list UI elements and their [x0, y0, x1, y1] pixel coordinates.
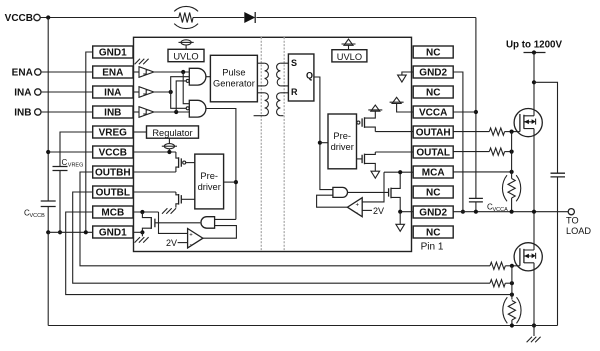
ground chassis B low FET — [162, 208, 176, 214]
svg-text:-: - — [356, 211, 358, 217]
wire INA to AND1 mid — [171, 77, 190, 92]
block Pre-driver B — [195, 154, 224, 209]
wire to pre-driver B — [224, 181, 236, 183]
junction INA branch — [169, 90, 173, 94]
junction GND1 bus / row — [84, 230, 88, 234]
wire 2V to comparator A — [362, 209, 372, 211]
gate AND2 interlock — [186, 100, 206, 117]
transformer T1 primary — [257, 63, 268, 86]
wire INB to AND1 bubble — [176, 81, 186, 112]
svg-text:TO: TO — [566, 216, 579, 226]
ground chassis ENA — [135, 59, 149, 65]
resistor bootstrap (surge) — [174, 6, 198, 28]
ground flag A FET source — [371, 171, 380, 178]
resistor RGL1 OUTAL gate — [453, 148, 511, 155]
pin ENA — [93, 66, 133, 79]
svg-text:GND2: GND2 — [419, 208, 447, 219]
isolation barrier left — [260, 37, 262, 251]
junction Q2 source / ground rail — [532, 323, 536, 327]
junction NTC2 / ground rail — [510, 323, 514, 327]
svg-text:INA: INA — [14, 87, 31, 98]
wire AND B bottom input from comparator — [203, 226, 237, 239]
pin OUTBL — [93, 186, 133, 199]
IC outline — [134, 37, 412, 251]
junction CVCCB / GND1 row — [46, 230, 50, 234]
label CVCCB — [24, 209, 45, 220]
junction clamp B source / GND1 — [140, 230, 144, 234]
svg-text:INB: INB — [104, 108, 121, 119]
svg-text:R: R — [291, 87, 298, 97]
node INA terminal — [14, 87, 41, 98]
label CVCCA — [487, 203, 508, 214]
block Regulator — [147, 126, 199, 138]
svg-text:Pin 1: Pin 1 — [421, 242, 444, 253]
wire Q1 source to Q2 drain — [533, 129, 535, 250]
ground symbol power — [527, 326, 541, 343]
node ENA terminal — [12, 67, 41, 78]
pin NC 3 — [413, 186, 453, 199]
pin NC 2 — [413, 86, 453, 99]
svg-text:OUTAH: OUTAH — [416, 128, 451, 139]
wire AND2 to channel B logic — [206, 109, 236, 220]
svg-text:Regulator: Regulator — [152, 128, 192, 138]
svg-text:MCA: MCA — [422, 168, 445, 179]
svg-text:driver: driver — [198, 182, 221, 192]
svg-text:Pre-: Pre- — [333, 131, 351, 141]
pin NC 4 — [413, 226, 453, 239]
pin VREG — [93, 126, 133, 139]
svg-text:UVLO: UVLO — [337, 52, 362, 62]
wire OUTBL internal — [134, 191, 176, 193]
pin GND2 top — [413, 66, 453, 79]
wire ENA — [41, 71, 93, 73]
svg-text:ENA: ENA — [102, 68, 123, 79]
buffer ENA — [134, 67, 154, 78]
buffer INA — [134, 87, 154, 98]
wire Q to pre-driver A — [320, 142, 328, 144]
svg-text:GND1: GND1 — [99, 48, 127, 59]
supply flag UVLO A — [342, 39, 356, 50]
svg-text:INB: INB — [14, 107, 31, 118]
junction pre-driver B input — [234, 180, 238, 184]
ground chassis clamp B — [135, 232, 149, 242]
resistor RGH2 OUTBH gate — [490, 262, 512, 269]
junction VCCB row — [46, 150, 50, 154]
wire ENA to AND1 — [154, 71, 190, 73]
comparator B 2V — [188, 229, 203, 248]
wire Q1 gate vertical — [511, 132, 513, 179]
wire VCCB row to pin — [48, 151, 92, 153]
wire Q2 gate vertical — [511, 266, 513, 300]
wire GND2 top pin drop — [453, 72, 463, 212]
wire VCCB bus vertical — [47, 18, 49, 202]
transistor Q1 high-side MOSFET — [512, 109, 543, 137]
svg-text:Pre-: Pre- — [200, 171, 218, 181]
UVLO A box — [332, 50, 367, 62]
junction MCA internal — [398, 170, 402, 174]
svg-text:VCCB: VCCB — [30, 213, 46, 219]
wire GND1 to ground rail — [47, 232, 49, 325]
supply flag regulator out — [162, 138, 177, 152]
wire MCB long — [66, 212, 512, 295]
svg-text:ENA: ENA — [12, 67, 33, 78]
transistor B low-side NMOS — [176, 192, 195, 208]
block Pulse Generator U2 — [210, 55, 257, 102]
pin OUTBH — [93, 166, 133, 179]
transistor A miller clamp NMOS — [389, 172, 401, 212]
transformer T1 secondary — [277, 63, 289, 86]
wire MCB sense to comparator B — [159, 212, 188, 233]
ground flag clamp A — [396, 212, 405, 232]
svg-text:2V: 2V — [373, 206, 384, 216]
junction MCB node — [510, 293, 514, 297]
junction OUTBL node — [510, 281, 514, 285]
wire bootstrap vertical to VCCA — [475, 18, 477, 199]
junction 1200V branch — [532, 80, 536, 84]
junction ENA branch — [181, 70, 185, 74]
wire OUTBL long — [73, 192, 490, 283]
wire OUTBH long — [80, 172, 490, 266]
gate AND clamp A — [333, 187, 348, 197]
node INB terminal — [14, 107, 41, 118]
junction NTC1 / rail — [510, 210, 514, 214]
svg-text:VCCB: VCCB — [5, 13, 33, 24]
resistor RGH1 OUTAH gate — [453, 128, 511, 135]
svg-text:OUTBH: OUTBH — [95, 168, 131, 179]
svg-text:INA: INA — [104, 88, 121, 99]
svg-text:GND2: GND2 — [419, 68, 447, 79]
junction INB branch — [174, 110, 178, 114]
pin GND1 bottom — [93, 226, 133, 239]
wire GND1 pin bus — [86, 52, 93, 232]
gate AND1 interlock — [186, 68, 206, 85]
wire INB to AND2 — [154, 111, 190, 113]
transformer T2 secondary — [277, 93, 289, 116]
svg-text:VREG: VREG — [68, 163, 84, 169]
transistor A high-side PMOS — [357, 111, 376, 131]
wire INA to buffers split — [154, 91, 171, 93]
pin OUTAL — [413, 146, 453, 159]
latch SR — [288, 54, 314, 101]
supply flag A FET source — [368, 105, 382, 111]
thermistor NTC1 — [502, 175, 520, 212]
wire AND B top input — [215, 218, 236, 220]
svg-text:driver: driver — [331, 142, 354, 152]
pin MCA — [413, 166, 453, 179]
svg-text:VCCB: VCCB — [99, 148, 127, 159]
junction OUTAL node — [510, 150, 514, 154]
wire OUTAH internal — [375, 131, 413, 133]
isolation barrier right — [283, 37, 285, 251]
svg-text:S: S — [291, 58, 297, 68]
pin MCB — [93, 206, 133, 219]
wire VREG to CVREG — [60, 132, 93, 167]
svg-text:LOAD: LOAD — [566, 226, 591, 236]
diode bootstrap — [244, 12, 255, 23]
wire clamp A gate — [348, 191, 389, 193]
junction Q1 gate node — [510, 130, 514, 134]
ground flag GND2 top — [398, 72, 414, 82]
wire VCCB row internal — [134, 151, 176, 153]
wire MCA to gate node — [453, 171, 511, 173]
wire switch node rail — [453, 211, 568, 213]
junction Q2 gate node — [510, 264, 514, 268]
pin INB — [93, 106, 133, 119]
wire 2V to comparator B — [178, 242, 188, 244]
UVLO B box — [168, 49, 204, 61]
gate AND clamp B — [201, 217, 215, 229]
wire INA — [41, 91, 93, 93]
svg-text:Up to 1200V: Up to 1200V — [506, 40, 563, 51]
wire INB — [41, 111, 93, 113]
junction Q to pre-driver A — [318, 141, 322, 145]
junction VCCB internal — [167, 150, 171, 154]
junction GND2 drop / switch rail — [461, 210, 465, 214]
wire ENA to AND2 — [183, 72, 189, 104]
node VCCB terminal — [5, 13, 41, 24]
svg-text:OUTAL: OUTAL — [416, 148, 450, 159]
svg-text:NC: NC — [426, 88, 440, 99]
wire MCB internal — [134, 211, 159, 213]
wire MCA internal — [384, 171, 413, 173]
wire Q2 source to ground rail — [533, 263, 535, 326]
wire VCCA pin to bootstrap — [453, 111, 476, 113]
wire GND2 bottom internal — [400, 211, 413, 213]
capacitor CVREG — [53, 167, 68, 233]
svg-text:C: C — [62, 158, 68, 167]
svg-text:2V: 2V — [166, 238, 177, 248]
capacitor CVCCB — [41, 201, 56, 232]
svg-text:NC: NC — [426, 228, 440, 239]
pin VCCA — [413, 106, 453, 119]
junction CVCCA / rail — [474, 210, 478, 214]
supply flag VCCA — [390, 97, 414, 112]
node TO LOAD terminal — [566, 209, 591, 236]
transistor Q2 low-side MOSFET — [512, 243, 543, 271]
svg-text:UVLO: UVLO — [173, 52, 198, 62]
ground rail bottom — [48, 325, 557, 327]
svg-text:Generator: Generator — [213, 79, 255, 89]
resistor RGL2 OUTBL gate — [490, 280, 512, 287]
wire Q output — [314, 77, 333, 190]
svg-text:+: + — [189, 233, 193, 239]
pin VCCB — [93, 146, 133, 159]
junction switch rail / FET bus — [532, 210, 536, 214]
wire GND1 row — [48, 231, 92, 233]
svg-text:Pulse: Pulse — [222, 68, 245, 78]
junction VCCB rail/bus — [46, 15, 50, 19]
capacitor bulk HV — [551, 173, 566, 325]
junction clamp A source — [398, 210, 402, 214]
thermistor NTC2 — [503, 297, 521, 325]
svg-text:NC: NC — [426, 188, 440, 199]
pin GND1 top — [93, 46, 133, 59]
transistor B miller clamp NMOS — [142, 212, 155, 232]
svg-text:GND1: GND1 — [99, 228, 127, 239]
wire 1200V bus upper — [533, 53, 535, 116]
capacitor CVCCA — [469, 198, 483, 211]
wire branch to bulk capacitor — [534, 82, 558, 173]
svg-text:-: - — [190, 242, 192, 248]
junction MCB internal — [140, 210, 144, 214]
supply flag UVLO B — [179, 40, 194, 49]
junction MCA node — [510, 170, 514, 174]
svg-text:+: + — [356, 202, 360, 208]
transistor A low-side NMOS — [357, 152, 376, 171]
buffer INB — [134, 107, 154, 118]
transistor B high-side PMOS — [176, 152, 195, 172]
junction VCCA node — [474, 110, 478, 114]
junction CVREG / GND1 row — [58, 230, 62, 234]
wire OUTAL internal — [375, 151, 413, 153]
wire MCA sense to comparator A — [362, 172, 384, 202]
wire AND1 to pulse generator — [206, 76, 211, 78]
wire INA to AND2 bubble — [171, 92, 186, 108]
comparator A 2V — [347, 198, 362, 217]
wire comparator A out to AND — [317, 195, 348, 207]
svg-text:OUTBL: OUTBL — [96, 188, 130, 199]
svg-text:VREG: VREG — [99, 128, 128, 139]
svg-text:VCCA: VCCA — [419, 108, 447, 119]
svg-text:NC: NC — [426, 48, 440, 59]
block Pre-driver A — [328, 114, 357, 169]
svg-text:MCB: MCB — [101, 208, 124, 219]
label CVREG — [62, 158, 84, 169]
transformer T2 primary — [254, 93, 269, 116]
wire VREG pin to regulator — [134, 131, 147, 133]
pin OUTAH — [413, 126, 453, 139]
svg-text:Q: Q — [306, 71, 313, 81]
pin INA — [93, 86, 133, 99]
node 1200V supply bar — [524, 50, 546, 54]
wire clamp B gate — [155, 222, 200, 224]
wire VCCB top rail — [40, 17, 476, 19]
wire OUTBH internal — [134, 171, 176, 173]
wire GND1 internal — [134, 231, 143, 233]
pin NC 1 — [413, 46, 453, 59]
pin GND2 bottom — [413, 206, 453, 219]
